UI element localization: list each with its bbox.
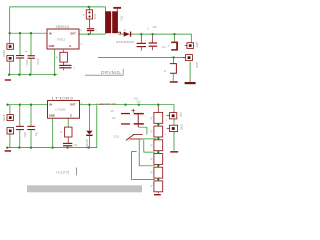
svg-text:47u: 47u <box>153 25 158 29</box>
svg-text:OUT: OUT <box>70 31 76 35</box>
resistor R2 bleeder <box>164 57 178 82</box>
resistor R below U1 <box>56 49 68 62</box>
svg-text:R: R <box>60 130 62 134</box>
pad X2-2 <box>183 55 199 68</box>
zener D2 <box>85 105 92 149</box>
resistor RL4 <box>154 154 163 165</box>
resistor RL2 <box>154 126 163 137</box>
svg-text:100n: 100n <box>25 60 29 67</box>
connector X1 pin stubs <box>9 33 11 44</box>
wire cap to switch <box>138 127 147 134</box>
svg-text:+(12?): +(12?) <box>56 171 70 175</box>
fuse F1 <box>83 7 96 28</box>
svg-text:10u: 10u <box>112 117 117 120</box>
svg-text:C: C <box>168 45 170 48</box>
capacitor C3 <box>137 34 146 51</box>
capacitor C4 <box>148 25 167 50</box>
ground bar X2 <box>185 82 196 84</box>
svg-text:TR1: TR1 <box>119 16 123 22</box>
resistor labels <box>150 117 152 188</box>
pad X1-2 <box>7 55 14 61</box>
resistor RL5 <box>154 167 163 178</box>
capacitor C6 column <box>16 105 27 148</box>
wire switch to ladder tap2 <box>143 138 156 140</box>
svg-text:GND: GND <box>49 44 55 48</box>
svg-text:100n: 100n <box>23 132 27 139</box>
svg-text:5x20: 5x20 <box>93 14 96 20</box>
svg-text:GND: GND <box>49 114 55 118</box>
supply symbol on secondary top <box>113 7 121 12</box>
svg-text:47u: 47u <box>162 45 167 49</box>
svg-text:S1/2: S1/2 <box>114 135 120 139</box>
svg-text:OUT: OUT <box>70 103 76 107</box>
pad X4-2 <box>165 124 183 136</box>
svg-text:470u: 470u <box>36 59 40 66</box>
wire lower output bus <box>80 105 175 151</box>
resistor RL6 <box>154 181 163 192</box>
diode D1 <box>116 29 142 44</box>
wire gnd pin stub <box>54 49 56 75</box>
capacitor C8 below R3 <box>63 137 78 147</box>
svg-text:10u: 10u <box>74 144 79 147</box>
switch S1 <box>114 134 143 140</box>
wire lower bottom bus <box>7 105 97 148</box>
wire out2 <box>98 56 183 58</box>
wire tap5 <box>132 152 155 180</box>
status bar <box>27 185 142 192</box>
svg-text:230V: 230V <box>2 50 6 57</box>
svg-text:DRVMJL: DRVMJL <box>101 70 122 75</box>
svg-text:78S12: 78S12 <box>57 37 66 41</box>
svg-text:E: E <box>70 114 72 118</box>
ground ladder bottom <box>154 194 161 195</box>
ground under X1 <box>5 79 11 80</box>
svg-text:IN: IN <box>49 31 52 35</box>
capacitor C9 plates <box>121 113 130 114</box>
svg-text:D: D <box>124 29 126 32</box>
svg-text:R: R <box>56 55 58 59</box>
svg-text:C10: C10 <box>136 101 141 104</box>
svg-text:+18V: +18V <box>195 42 199 48</box>
wire tap3 <box>144 140 155 153</box>
svg-text:R: R <box>164 69 166 73</box>
capacitor C7 column <box>27 105 38 148</box>
svg-text:C: C <box>95 29 97 32</box>
resistor RL1 <box>154 112 163 123</box>
resistor R3 below U2 <box>60 118 72 137</box>
svg-text:GND: GND <box>195 62 199 68</box>
pad X3-2 <box>7 128 14 134</box>
svg-text:+: + <box>25 50 27 54</box>
wire U2 gnd stub <box>52 118 54 147</box>
resistor RL3 <box>154 140 163 151</box>
svg-text:10u: 10u <box>35 132 39 137</box>
wire rectified rail <box>141 34 191 43</box>
svg-text:1N4004: 1N4004 <box>116 40 136 44</box>
svg-text:LT1083: LT1083 <box>56 108 66 112</box>
capacitor C10 <box>131 109 144 127</box>
wire IC output to transformer <box>79 33 105 35</box>
wire pad X2-2 to ground <box>189 62 191 83</box>
wire top bus <box>10 7 106 34</box>
junction dots top circuit <box>8 6 176 76</box>
capacitor C1 column <box>16 33 29 74</box>
pad X2-1 <box>185 42 199 49</box>
svg-text:C: C <box>148 27 150 31</box>
ground dash right <box>170 151 178 153</box>
svg-text:+UA: +UA <box>179 112 182 117</box>
pad X3-1 <box>7 115 13 121</box>
connector X3 pin stubs <box>9 105 11 115</box>
capacitor under fuse <box>87 28 97 34</box>
wire tap4 <box>139 140 155 166</box>
junction dots lower circuit <box>6 104 159 181</box>
pad X1-1 <box>7 44 14 50</box>
svg-text:LT1083: LT1083 <box>52 96 74 100</box>
svg-text:L4E9T1W: L4E9T1W <box>97 102 117 106</box>
regulator U1 <box>47 29 79 49</box>
ground under X3 <box>5 150 11 152</box>
regulator U2 <box>48 101 80 119</box>
svg-text:78S12: 78S12 <box>55 25 70 29</box>
wire bottom bus left <box>9 74 57 76</box>
svg-text:E: E <box>70 44 72 48</box>
transformer core gap dots <box>111 12 113 33</box>
divider line <box>85 74 123 76</box>
wire lower input bus <box>8 104 48 106</box>
caption cursor bar <box>76 168 78 176</box>
svg-text:230V: 230V <box>2 115 6 122</box>
wire mid left bus <box>10 32 47 34</box>
svg-text:GND: GND <box>180 124 183 130</box>
capacitor C2 column <box>25 33 40 74</box>
capacitor C5 bracket <box>168 34 178 51</box>
svg-text:IN: IN <box>49 103 52 107</box>
transformer TR1 winding 2 <box>112 11 118 33</box>
transformer TR1 winding 1 <box>105 11 111 33</box>
secondary bottom pin <box>118 32 121 34</box>
capacitor below R <box>59 62 75 70</box>
resistor ladder spine <box>157 105 159 194</box>
pad X4-1 <box>166 112 182 122</box>
